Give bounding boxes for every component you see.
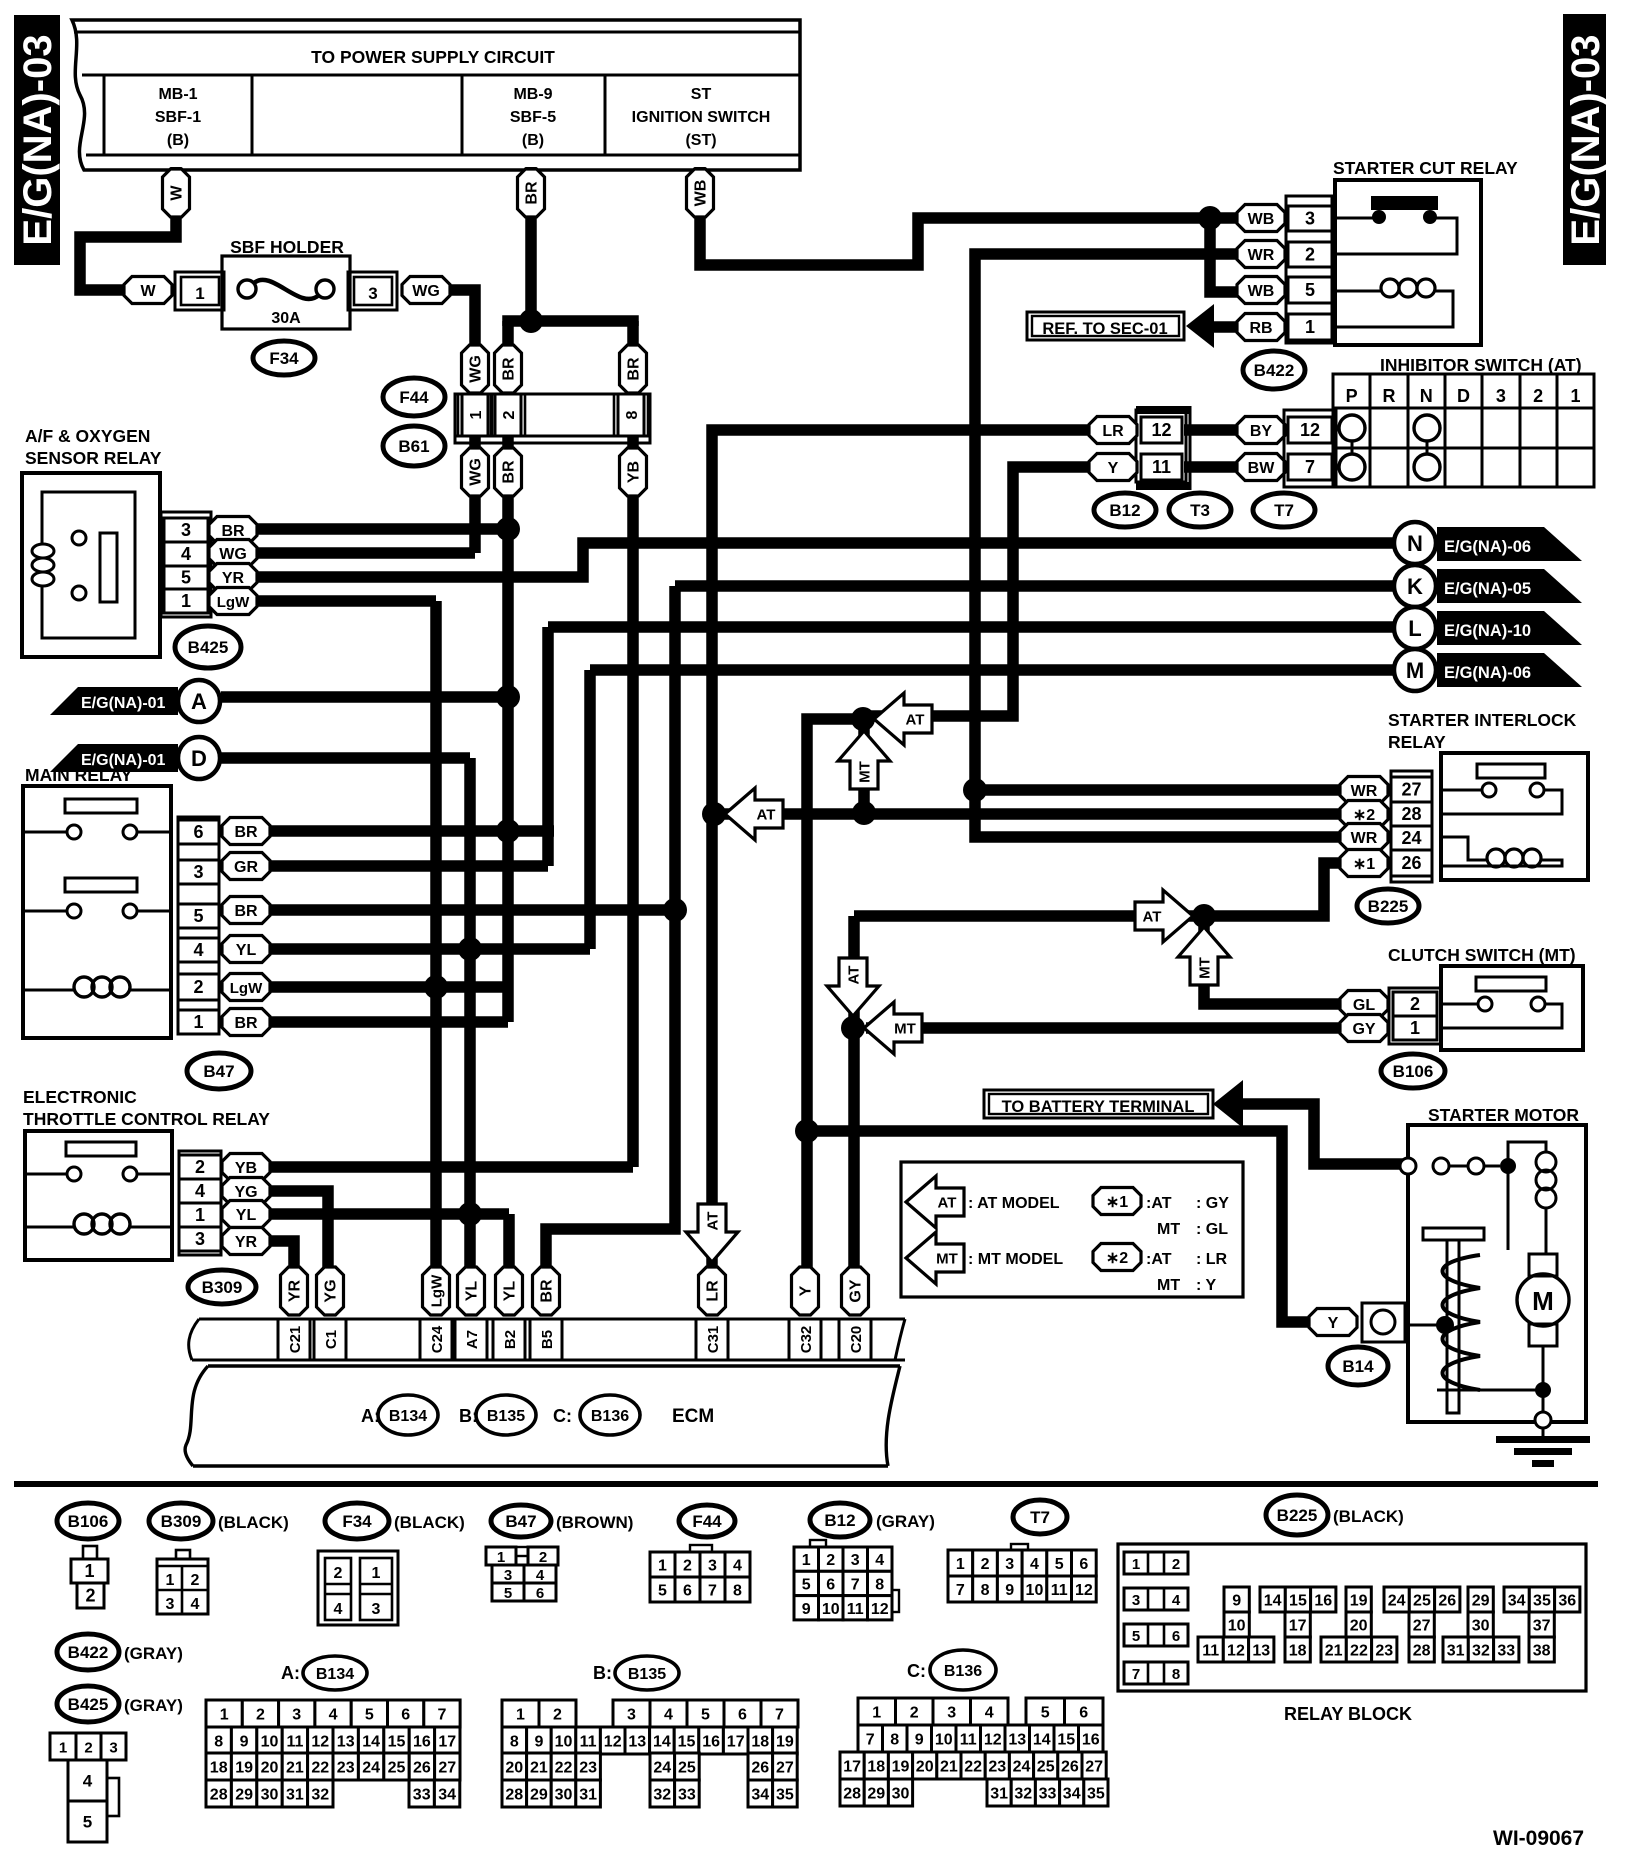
inhibitor pin strip <box>1284 410 1336 487</box>
svg-text:TO BATTERY TERMINAL: TO BATTERY TERMINAL <box>1002 1098 1195 1116</box>
svg-text:16: 16 <box>702 1734 720 1751</box>
ECM pin B2 <box>493 1319 525 1360</box>
svg-text:20: 20 <box>1350 1618 1368 1635</box>
wire WB from power supply ST to starter cut relay pin 3 <box>700 167 1238 265</box>
capsule BR at ECM B5 <box>533 1267 560 1315</box>
ECM connector strip <box>189 1319 905 1360</box>
svg-text:4: 4 <box>536 1567 545 1584</box>
svg-text:9: 9 <box>240 1734 249 1751</box>
ground symbol <box>1496 1428 1590 1467</box>
throttle relay pin strip <box>179 1151 221 1255</box>
drawing number WI-09067 <box>1493 1827 1584 1850</box>
svg-text:1: 1 <box>84 1561 94 1581</box>
svg-text:D: D <box>191 746 207 771</box>
svg-text:WG: WG <box>219 546 247 563</box>
svg-text:28: 28 <box>843 1786 861 1803</box>
svg-text:K: K <box>1407 574 1423 599</box>
svg-text:3: 3 <box>1005 1556 1014 1573</box>
wire row E/G(NA)-01 D to YL vertical <box>221 752 470 764</box>
relay block cluster 9-13 <box>1198 1587 1274 1662</box>
svg-text:BY: BY <box>1250 423 1273 440</box>
starter pinion lever <box>1423 1228 1484 1413</box>
svg-text:BR: BR <box>501 460 518 484</box>
view T7 connector <box>948 1544 1096 1602</box>
legend *2 capsule <box>1093 1244 1228 1271</box>
svg-text:5: 5 <box>1055 1556 1064 1573</box>
svg-text:12: 12 <box>871 1601 889 1618</box>
svg-text:9: 9 <box>915 1732 924 1749</box>
SBF holder fuse box <box>222 256 350 329</box>
svg-text:23: 23 <box>988 1759 1006 1776</box>
capsule YR at A/F pin 5 <box>209 564 257 591</box>
svg-text:7: 7 <box>708 1583 717 1600</box>
svg-text:24: 24 <box>1013 1759 1031 1776</box>
view B309 connector <box>157 1550 208 1614</box>
capsule Y at starter B14 <box>1309 1309 1357 1336</box>
svg-text:M: M <box>1532 1286 1554 1316</box>
throttle relay pin 2 <box>179 1155 221 1179</box>
svg-text:YB: YB <box>235 1160 257 1177</box>
svg-text:11: 11 <box>847 1601 864 1618</box>
svg-text:27: 27 <box>776 1760 794 1777</box>
svg-text:2: 2 <box>1172 1556 1180 1573</box>
clutch switch box <box>1441 966 1583 1050</box>
view label B422 <box>57 1634 183 1670</box>
svg-text:MB-1: MB-1 <box>158 86 197 103</box>
svg-text:E/G(NA)-03: E/G(NA)-03 <box>1564 34 1608 245</box>
MT arrow on *1 row <box>1178 927 1230 985</box>
wire row harness L E/G(NA)-10 <box>548 621 1395 633</box>
svg-text:3: 3 <box>1305 209 1315 229</box>
svg-text:1: 1 <box>181 591 191 611</box>
A/F relay pin 1 <box>164 589 208 613</box>
ECM pin B5 <box>530 1319 562 1360</box>
svg-text:B225: B225 <box>1277 1506 1318 1525</box>
power cell ST IGNITION SWITCH (ST) <box>632 86 771 149</box>
svg-text:24: 24 <box>362 1760 380 1777</box>
arrowhead to REF. TO SEC-01 <box>1186 304 1214 348</box>
svg-text:12: 12 <box>984 1732 1002 1749</box>
svg-text::AT: :AT <box>1146 1195 1172 1212</box>
wire LgW vertical to ECM C24 <box>430 601 442 1268</box>
svg-text:22: 22 <box>1350 1643 1368 1660</box>
main relay contact 2 <box>23 878 171 918</box>
svg-text:20: 20 <box>916 1759 934 1776</box>
svg-text:E/G(NA)-01: E/G(NA)-01 <box>81 695 166 712</box>
svg-text:YL: YL <box>502 1281 519 1302</box>
svg-text:35: 35 <box>776 1787 794 1804</box>
svg-text:35: 35 <box>1533 1593 1551 1610</box>
capsule WG above F44 pin 1 <box>462 345 489 393</box>
wire Y from B12 pin 11 via AT arrow <box>870 467 1090 716</box>
svg-text:5: 5 <box>181 568 191 588</box>
relay block cluster 29-33 <box>1443 1587 1519 1662</box>
svg-text:C1: C1 <box>323 1330 340 1349</box>
svg-text:WB: WB <box>1248 283 1275 300</box>
harness arrow E/G(NA)-01 D <box>50 737 220 779</box>
svg-text:7: 7 <box>1305 457 1315 477</box>
capsule WB below ST <box>687 169 714 217</box>
svg-text:AT: AT <box>1143 909 1162 926</box>
svg-text:MB-9: MB-9 <box>513 86 552 103</box>
svg-text:10: 10 <box>822 1601 840 1618</box>
wire WG from SBF fuse 3 to connector F44 pin 1 <box>446 290 475 553</box>
interlock relay contact <box>1441 764 1562 814</box>
svg-text:F34: F34 <box>269 349 299 368</box>
connector B12 body <box>1136 406 1190 490</box>
svg-text:2: 2 <box>910 1705 919 1722</box>
svg-text:E/G(NA)-05: E/G(NA)-05 <box>1444 580 1531 598</box>
connector label B425 <box>175 626 241 668</box>
svg-text:2: 2 <box>334 1565 343 1582</box>
capsule BR below MB-9 <box>518 169 545 217</box>
svg-text:28: 28 <box>1413 1643 1431 1660</box>
ECM pin C31 <box>696 1319 728 1360</box>
svg-text:1: 1 <box>658 1558 667 1575</box>
svg-text:BR: BR <box>221 523 245 540</box>
wire YL riser to harness M row <box>584 670 596 949</box>
svg-text:13: 13 <box>337 1734 355 1751</box>
ECM pin C20 <box>839 1319 871 1360</box>
svg-text:B:: B: <box>593 1663 612 1683</box>
wire 2 LgW row main relay pin 2 <box>250 981 512 993</box>
svg-text:19: 19 <box>1350 1593 1368 1610</box>
view label F34 <box>325 1503 465 1539</box>
view B106 connector <box>71 1546 108 1608</box>
capsule W below MB-1 <box>163 169 190 217</box>
svg-text:30: 30 <box>261 1787 279 1804</box>
junction 3 BR <box>496 517 520 541</box>
svg-text:4: 4 <box>181 544 191 564</box>
svg-text:GR: GR <box>234 859 258 876</box>
capsule Y at B12 pin 11 <box>1089 454 1137 481</box>
svg-text:13: 13 <box>628 1734 646 1751</box>
svg-text:10: 10 <box>1228 1618 1246 1635</box>
svg-text:26: 26 <box>1061 1759 1079 1776</box>
svg-text:5: 5 <box>193 906 203 926</box>
svg-text:33: 33 <box>1039 1786 1057 1803</box>
harness arrow L E/G(NA)-10 <box>1394 607 1582 649</box>
legend *1 capsule <box>1093 1188 1229 1215</box>
svg-text:5: 5 <box>701 1707 710 1724</box>
label STARTER MOTOR <box>1428 1105 1579 1125</box>
svg-text:4: 4 <box>334 1601 343 1618</box>
wire YR throttle relay pin 3 to ECM C21 <box>250 1241 294 1268</box>
starter motor box <box>1408 1125 1586 1422</box>
svg-text:6: 6 <box>536 1585 544 1602</box>
A/F relay pin 3 <box>164 518 208 542</box>
svg-text:1: 1 <box>1570 386 1580 406</box>
junction A row BR <box>496 685 520 709</box>
view label A: B134 <box>281 1656 367 1690</box>
interlock pin 26 <box>1391 850 1432 876</box>
svg-text:2: 2 <box>1533 386 1543 406</box>
svg-text:25: 25 <box>388 1760 406 1777</box>
svg-text:27: 27 <box>438 1760 456 1777</box>
view label C: B136 <box>907 1650 996 1690</box>
svg-text:1: 1 <box>193 1012 203 1032</box>
wire GL clutch switch pin 2 <box>1204 916 1344 1004</box>
svg-text:(BLACK): (BLACK) <box>394 1513 465 1532</box>
interlock pin 27 <box>1391 777 1432 802</box>
label CLUTCH SWITCH (MT) <box>1388 945 1576 965</box>
svg-text:1: 1 <box>1305 317 1315 337</box>
relay block cluster 24-28 <box>1384 1587 1460 1662</box>
svg-text:29: 29 <box>530 1787 548 1804</box>
svg-text:(GRAY): (GRAY) <box>124 1644 183 1663</box>
svg-text:5: 5 <box>1041 1705 1050 1722</box>
svg-text:6: 6 <box>1079 1556 1088 1573</box>
svg-text:31: 31 <box>990 1786 1008 1803</box>
svg-text:STARTER CUT RELAY: STARTER CUT RELAY <box>1333 158 1518 178</box>
svg-text:BR: BR <box>539 1279 556 1303</box>
svg-text:5: 5 <box>83 1813 92 1832</box>
svg-text:WG: WG <box>468 458 485 486</box>
capsule *2 at interlock 28 <box>1340 801 1388 828</box>
svg-text:16: 16 <box>1314 1593 1332 1610</box>
inhibitor switch contacts P <box>1339 415 1365 480</box>
svg-text:15: 15 <box>678 1734 696 1751</box>
svg-text:WR: WR <box>1248 247 1275 264</box>
view F34 connector <box>318 1551 398 1625</box>
harness arrow E/G(NA)-01 A <box>50 680 220 722</box>
svg-text:10: 10 <box>555 1734 573 1751</box>
capsule YL at ECM B2 <box>496 1267 523 1315</box>
svg-text:6: 6 <box>401 1707 410 1724</box>
svg-text:3: 3 <box>181 520 191 540</box>
svg-text:2: 2 <box>1305 245 1315 265</box>
capsule BR above F44 pin 8 <box>620 345 647 393</box>
svg-text:B134: B134 <box>316 1666 354 1683</box>
capsule WG after SBF fuse <box>402 277 450 304</box>
svg-text:1: 1 <box>166 1572 175 1589</box>
svg-text:B47: B47 <box>203 1062 234 1081</box>
svg-text:F34: F34 <box>342 1512 372 1531</box>
svg-text:B135: B135 <box>487 1408 525 1425</box>
wire row harness K E/G(NA)-05 <box>675 580 1395 592</box>
TO BATTERY TERMINAL box <box>984 1090 1213 1118</box>
svg-text:YR: YR <box>222 570 245 587</box>
ECM pin C24 <box>420 1319 452 1360</box>
F44 pin 8 <box>614 394 648 436</box>
svg-text:B47: B47 <box>505 1512 536 1531</box>
svg-text:BR: BR <box>524 181 541 205</box>
svg-text:B136: B136 <box>944 1663 982 1680</box>
svg-text:LR: LR <box>1102 423 1124 440</box>
junction 5 BR K <box>663 898 687 922</box>
svg-text:3: 3 <box>851 1552 860 1569</box>
svg-text:4: 4 <box>191 1596 200 1613</box>
junction WR pin27 <box>963 778 987 802</box>
F44 pin 2 <box>491 394 525 436</box>
svg-text:: Y: : Y <box>1196 1277 1216 1294</box>
svg-text:7: 7 <box>1132 1666 1140 1683</box>
connector label F34 <box>253 341 315 375</box>
connector B61 label <box>383 426 445 466</box>
capsule BR at main relay pin 6 <box>222 818 270 845</box>
SBF pin 1 box <box>175 272 224 310</box>
junction Y battery row <box>795 1119 819 1143</box>
svg-text:34: 34 <box>438 1787 456 1804</box>
svg-text:WG: WG <box>412 283 440 300</box>
svg-text:W: W <box>169 185 186 201</box>
svg-text:STARTER MOTOR: STARTER MOTOR <box>1428 1105 1579 1125</box>
svg-text:29: 29 <box>235 1787 253 1804</box>
main relay contact 1 <box>23 799 171 839</box>
connector label B422 <box>1243 351 1305 389</box>
view label B47 <box>491 1505 633 1537</box>
svg-text:INHIBITOR SWITCH (AT): INHIBITOR SWITCH (AT) <box>1380 355 1582 375</box>
capsule Y at ECM C32 <box>792 1267 819 1315</box>
svg-text:YR: YR <box>287 1279 304 1302</box>
svg-text:E/G(NA)-06: E/G(NA)-06 <box>1444 664 1531 682</box>
svg-text:11: 11 <box>1051 1582 1068 1599</box>
svg-text:MAIN RELAY: MAIN RELAY <box>25 765 133 785</box>
capsule RB at pin 1 <box>1237 314 1285 341</box>
svg-text:32: 32 <box>1472 1643 1490 1660</box>
svg-text:E/G(NA)-06: E/G(NA)-06 <box>1444 538 1531 556</box>
wire BR from power supply MB-9 down <box>525 167 537 321</box>
wire 1 LgW row A/F relay pin 1 <box>250 595 436 607</box>
svg-text:Y: Y <box>1108 460 1119 477</box>
svg-text:14: 14 <box>653 1734 671 1751</box>
wire YL drop to ECM B2 <box>503 1214 515 1268</box>
throttle control relay box <box>25 1131 172 1260</box>
svg-text:30: 30 <box>555 1787 573 1804</box>
junction 2 LgW <box>424 975 448 999</box>
main relay pin 4 <box>178 938 219 962</box>
view B12 connector <box>794 1540 899 1620</box>
view label B12 <box>810 1503 935 1537</box>
svg-text:8: 8 <box>624 410 641 419</box>
svg-text:4: 4 <box>875 1552 884 1569</box>
svg-text:YB: YB <box>626 461 643 483</box>
wire YL vertical to ECM A7 <box>464 758 476 1268</box>
svg-text:THROTTLE CONTROL RELAY: THROTTLE CONTROL RELAY <box>23 1109 270 1129</box>
junction Y AT <box>851 707 875 731</box>
svg-text:C21: C21 <box>287 1326 304 1354</box>
svg-text:B2: B2 <box>502 1330 519 1349</box>
svg-text:LgW: LgW <box>429 1274 446 1307</box>
svg-text:19: 19 <box>776 1734 794 1751</box>
svg-text:T7: T7 <box>1030 1508 1050 1527</box>
svg-text:C31: C31 <box>705 1326 722 1354</box>
svg-text:31: 31 <box>1447 1643 1465 1660</box>
label MAIN RELAY <box>25 765 133 785</box>
capsule LR at ECM C31 <box>699 1267 726 1315</box>
main relay pin 2 <box>178 974 219 1000</box>
inhibitor pin 7 <box>1288 454 1332 480</box>
capsule BR at A/F pin 3 <box>209 517 257 544</box>
ECM connector labels <box>361 1395 714 1435</box>
svg-text:12: 12 <box>1300 420 1320 440</box>
svg-text:6: 6 <box>1172 1628 1180 1645</box>
svg-text:BR: BR <box>234 903 258 920</box>
svg-text:3: 3 <box>708 1558 717 1575</box>
connector label B12 <box>1094 493 1156 527</box>
wire Y net MT link <box>858 719 870 813</box>
F44 pin 1 <box>458 394 492 436</box>
svg-text:1: 1 <box>1132 1556 1140 1573</box>
svg-text:3: 3 <box>193 862 203 882</box>
view label B425 <box>57 1686 183 1722</box>
starter motor M <box>1517 1254 1569 1385</box>
MT arrow on GY row <box>864 1002 922 1054</box>
svg-text:3: 3 <box>166 1596 175 1613</box>
view label B106 <box>57 1503 119 1539</box>
svg-text:28: 28 <box>1401 804 1421 824</box>
svg-text:2: 2 <box>683 1558 692 1575</box>
connector label B106 <box>1381 1054 1445 1088</box>
svg-text:11: 11 <box>580 1734 597 1751</box>
svg-text:10: 10 <box>935 1732 953 1749</box>
svg-text:B134: B134 <box>389 1408 427 1425</box>
starter solenoid rail <box>1508 1142 1546 1250</box>
connector label T7 <box>1253 493 1315 527</box>
wire RB to REF. TO SEC-01 <box>1209 321 1240 333</box>
svg-text:B425: B425 <box>188 638 229 657</box>
svg-text:YR: YR <box>235 1234 258 1251</box>
svg-text:19: 19 <box>235 1760 253 1777</box>
view B425 connector <box>50 1733 126 1842</box>
svg-text:6: 6 <box>683 1583 692 1600</box>
svg-text:2: 2 <box>256 1707 265 1724</box>
svg-text:31: 31 <box>579 1787 597 1804</box>
legend AT arrow <box>906 1176 1060 1228</box>
interlock pin 28 <box>1391 802 1432 826</box>
label A/F & OXYGEN SENSOR RELAY <box>25 426 162 468</box>
svg-text:4: 4 <box>985 1705 994 1722</box>
wire WB branch to starter cut relay pin 5 <box>1210 218 1238 292</box>
svg-text:ECM: ECM <box>672 1406 714 1427</box>
svg-text:MT: MT <box>1157 1277 1180 1294</box>
svg-text:WR: WR <box>1351 830 1378 847</box>
starter cut pin 1 <box>1288 314 1332 340</box>
svg-text:T7: T7 <box>1274 501 1294 520</box>
svg-text:∗1: ∗1 <box>1353 856 1375 873</box>
power supply circuit box <box>72 20 800 170</box>
svg-text:34: 34 <box>1508 1593 1526 1610</box>
svg-text:2: 2 <box>826 1552 835 1569</box>
svg-text:11: 11 <box>286 1734 303 1751</box>
wire YG throttle relay pin 4 to ECM C1 <box>250 1191 328 1268</box>
wire 6 BR row main relay pin 6 <box>250 825 554 837</box>
svg-text:∗2: ∗2 <box>1353 807 1375 824</box>
wire BR branch to F44 pins 2 and 8 <box>508 321 633 326</box>
svg-text:MT: MT <box>857 761 874 783</box>
B12 pin 12 <box>1141 417 1182 443</box>
svg-text:2: 2 <box>553 1707 562 1724</box>
svg-text:N: N <box>1407 531 1423 556</box>
svg-text:MT: MT <box>936 1251 958 1268</box>
svg-text:4: 4 <box>1172 1592 1181 1609</box>
svg-text:26: 26 <box>1438 1593 1456 1610</box>
svg-text:6: 6 <box>826 1576 835 1593</box>
junction 1 YL <box>458 1202 482 1226</box>
svg-text:3: 3 <box>504 1567 512 1584</box>
starter motor battery contacts <box>1400 1158 1516 1174</box>
svg-text:B106: B106 <box>68 1512 109 1531</box>
svg-text:5: 5 <box>1305 280 1315 300</box>
svg-text:B136: B136 <box>591 1408 629 1425</box>
svg-text:B12: B12 <box>1109 501 1140 520</box>
svg-text:F44: F44 <box>692 1512 722 1531</box>
capsule *1 at interlock 26 <box>1340 850 1388 877</box>
wire LR from B12 pin 12 to ECM C31 <box>712 430 1090 1268</box>
AT arrow on *1 row <box>1135 890 1193 942</box>
capsule WR at pin 2 <box>1237 241 1285 268</box>
wire row E/G(NA)-01 A to BR bus <box>221 691 508 703</box>
